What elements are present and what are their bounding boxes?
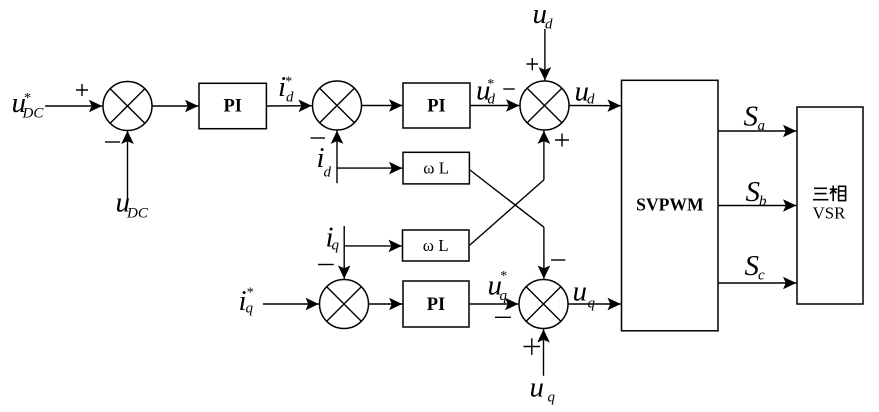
svg-text:u: u <box>573 276 588 308</box>
svg-text:SVPWM: SVPWM <box>636 195 704 215</box>
svg-text:q: q <box>246 301 254 317</box>
svg-text:DC: DC <box>126 206 149 222</box>
svg-text:u: u <box>530 372 545 404</box>
svg-text:d: d <box>545 17 553 33</box>
svg-text:S: S <box>744 101 759 133</box>
svg-text:*: * <box>487 77 494 92</box>
svg-text:q: q <box>500 288 508 304</box>
svg-text:q: q <box>548 390 556 406</box>
svg-text:ω L: ω L <box>423 159 449 178</box>
svg-text:DC: DC <box>22 106 45 122</box>
svg-text:d: d <box>587 92 595 108</box>
svg-text:*: * <box>24 91 31 106</box>
svg-text:*: * <box>285 75 292 90</box>
svg-text:VSR: VSR <box>813 204 846 223</box>
svg-text:b: b <box>759 194 767 210</box>
svg-text:d: d <box>324 165 332 181</box>
svg-text:PI: PI <box>427 295 446 315</box>
svg-text:*: * <box>500 269 507 284</box>
svg-text:a: a <box>758 118 766 134</box>
svg-text:ω L: ω L <box>423 236 449 255</box>
svg-text:q: q <box>332 238 340 254</box>
svg-text:PI: PI <box>427 97 446 117</box>
svg-text:q: q <box>588 296 596 312</box>
svg-text:*: * <box>247 285 254 300</box>
svg-text:PI: PI <box>223 97 242 117</box>
svg-text:d: d <box>286 90 294 106</box>
svg-text:d: d <box>488 92 496 108</box>
svg-text:c: c <box>758 268 765 284</box>
